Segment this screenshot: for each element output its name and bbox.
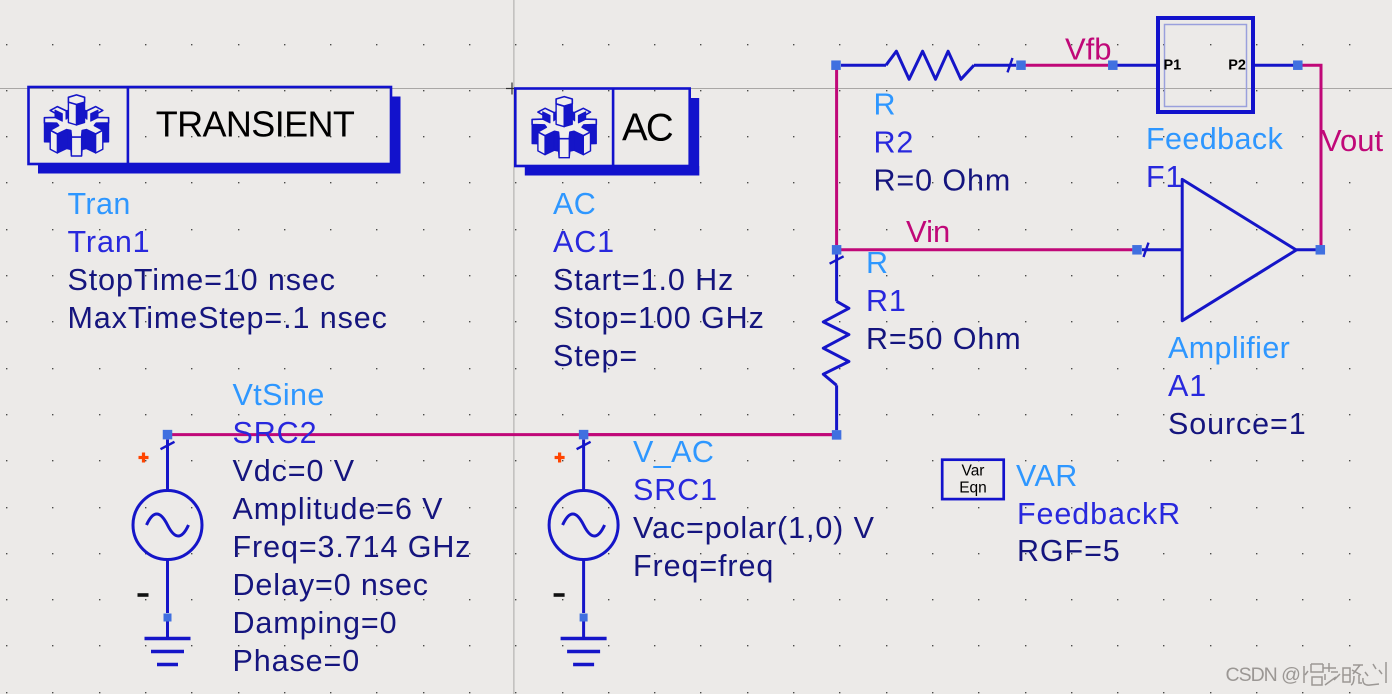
- svg-text:R: R: [866, 246, 888, 280]
- svg-text:Start=1.0 Hz: Start=1.0 Hz: [553, 263, 734, 297]
- svg-text:AC: AC: [622, 107, 673, 150]
- svg-text:P2: P2: [1228, 58, 1246, 74]
- svg-text:Feedback: Feedback: [1146, 122, 1283, 156]
- svg-text:Freq=freq: Freq=freq: [633, 549, 774, 583]
- svg-text:StopTime=10 nsec: StopTime=10 nsec: [68, 263, 336, 297]
- svg-text:Vout: Vout: [1321, 123, 1383, 158]
- svg-text:R2: R2: [874, 126, 915, 160]
- svg-text:Freq=3.714 GHz: Freq=3.714 GHz: [233, 530, 472, 564]
- svg-text:Vdc=0 V: Vdc=0 V: [233, 454, 355, 488]
- svg-text:Source=1: Source=1: [1168, 407, 1307, 441]
- svg-text:V_AC: V_AC: [633, 435, 714, 469]
- svg-text:R1: R1: [866, 284, 907, 318]
- svg-text:SRC1: SRC1: [633, 473, 718, 507]
- svg-text:Var: Var: [962, 463, 985, 480]
- svg-text:Amplifier: Amplifier: [1168, 331, 1290, 365]
- svg-text:Vfb: Vfb: [1065, 32, 1112, 67]
- svg-text:CSDN @: CSDN @: [1226, 664, 1301, 686]
- svg-text:FeedbackR: FeedbackR: [1017, 497, 1181, 531]
- svg-text:A1: A1: [1168, 369, 1207, 403]
- svg-text:Tran1: Tran1: [68, 225, 151, 259]
- svg-text:RGF=5: RGF=5: [1017, 534, 1121, 568]
- svg-text:MaxTimeStep=.1 nsec: MaxTimeStep=.1 nsec: [68, 301, 388, 335]
- svg-text:R=0 Ohm: R=0 Ohm: [874, 164, 1012, 198]
- svg-text:VAR: VAR: [1016, 459, 1078, 493]
- svg-text:AC1: AC1: [553, 225, 615, 259]
- svg-text:VtSine: VtSine: [233, 378, 325, 412]
- svg-text:Phase=0: Phase=0: [233, 644, 361, 678]
- svg-text:TRANSIENT: TRANSIENT: [156, 104, 355, 145]
- svg-text:P1: P1: [1164, 58, 1182, 74]
- svg-text:SRC2: SRC2: [233, 416, 318, 450]
- svg-text:Eqn: Eqn: [959, 480, 987, 497]
- svg-text:Tran: Tran: [68, 187, 131, 221]
- svg-text:Vac=polar(1,0) V: Vac=polar(1,0) V: [633, 511, 875, 545]
- svg-text:R: R: [874, 88, 896, 122]
- svg-text:Step=: Step=: [553, 339, 638, 373]
- svg-text:Delay=0 nsec: Delay=0 nsec: [233, 568, 429, 602]
- svg-text:Amplitude=6 V: Amplitude=6 V: [233, 492, 444, 526]
- svg-text:Damping=0: Damping=0: [233, 606, 398, 640]
- svg-text:F1: F1: [1146, 160, 1183, 194]
- svg-text:Stop=100 GHz: Stop=100 GHz: [553, 301, 765, 335]
- svg-text:AC: AC: [553, 187, 596, 221]
- svg-text:Vin: Vin: [906, 214, 950, 249]
- svg-text:R=50 Ohm: R=50 Ohm: [866, 322, 1022, 356]
